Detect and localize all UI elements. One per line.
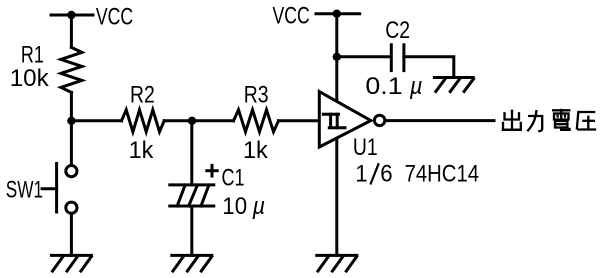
svg-text:0.1: 0.1 [365, 73, 402, 100]
svg-text:10: 10 [222, 193, 247, 220]
svg-text:1: 1 [355, 161, 367, 188]
switch SW1 actuator stub [42, 187, 57, 190]
svg-text:SW1: SW1 [6, 177, 43, 204]
svg-text:74HC14: 74HC14 [405, 161, 479, 188]
capacitor C2 right plate [402, 45, 405, 71]
wire VCC to R1 [70, 15, 73, 47]
svg-text:R2: R2 [130, 82, 155, 109]
switch SW1 lower contact [66, 202, 77, 213]
resistor R3 [234, 110, 279, 132]
wire R1 to node A [70, 92, 73, 120]
capacitor C1 top plate [170, 183, 214, 186]
node A junction [67, 117, 75, 125]
wire node A to R2 [71, 119, 121, 122]
ground C1 [172, 255, 212, 271]
kanji de (exit) [502, 110, 522, 130]
svg-text:1k: 1k [129, 137, 155, 164]
wire output [386, 119, 494, 122]
label 1/6 slash stroke [370, 163, 378, 184]
kanji atsu (pressure) [577, 112, 596, 130]
capacitor C1 hatch [177, 185, 209, 206]
svg-text:VCC: VCC [273, 2, 310, 29]
wire SW1 to ground [70, 214, 73, 255]
wire R3 to U1 input [279, 119, 320, 122]
U1 hysteresis mark [323, 114, 345, 128]
switch SW1 actuator bar [55, 164, 58, 213]
svg-text:C2: C2 [385, 17, 410, 44]
U1 output bubble [374, 115, 384, 125]
inverter U1 74HC14 triangle [319, 92, 371, 147]
wire R2 to node B [164, 119, 192, 122]
ground C2 [434, 78, 473, 92]
node VCC left junction [67, 11, 75, 19]
node C2 tee junction [333, 53, 341, 61]
switch SW1 upper contact [66, 166, 77, 177]
resistor R2 [122, 110, 165, 132]
svg-text:1k: 1k [243, 137, 269, 164]
wire node B to R3 [192, 119, 234, 122]
svg-text:µ: µ [252, 193, 266, 220]
svg-text:VCC: VCC [96, 4, 133, 31]
wire VCC right rail [316, 12, 360, 15]
capacitor C1 bottom plate [170, 205, 214, 208]
wire C2 to ground [404, 57, 454, 78]
wire tee to C2 [337, 55, 390, 58]
svg-text:U1: U1 [353, 134, 378, 161]
svg-text:C1: C1 [222, 164, 245, 191]
wire U1 power line [335, 14, 338, 256]
resistor R1 [61, 47, 82, 92]
label output voltage kanji [502, 109, 596, 131]
svg-text:10k: 10k [10, 65, 50, 92]
wire VCC left rail [51, 14, 93, 17]
wire node A to SW1 [70, 121, 73, 165]
node B junction [188, 117, 196, 125]
wire C1 to ground [190, 206, 193, 255]
ground U1 [317, 255, 357, 271]
svg-text:µ: µ [409, 73, 423, 100]
capacitor C2 left plate [390, 45, 393, 71]
svg-text:6: 6 [380, 161, 392, 188]
node VCC right junction [333, 10, 341, 18]
wire node B to C1 [190, 121, 193, 185]
svg-text:R3: R3 [244, 82, 269, 109]
ground SW1 [51, 255, 91, 271]
+ polarity mark C1 [205, 164, 218, 178]
kanji den (electric) [552, 109, 571, 130]
kanji chikara (force) [527, 110, 542, 131]
